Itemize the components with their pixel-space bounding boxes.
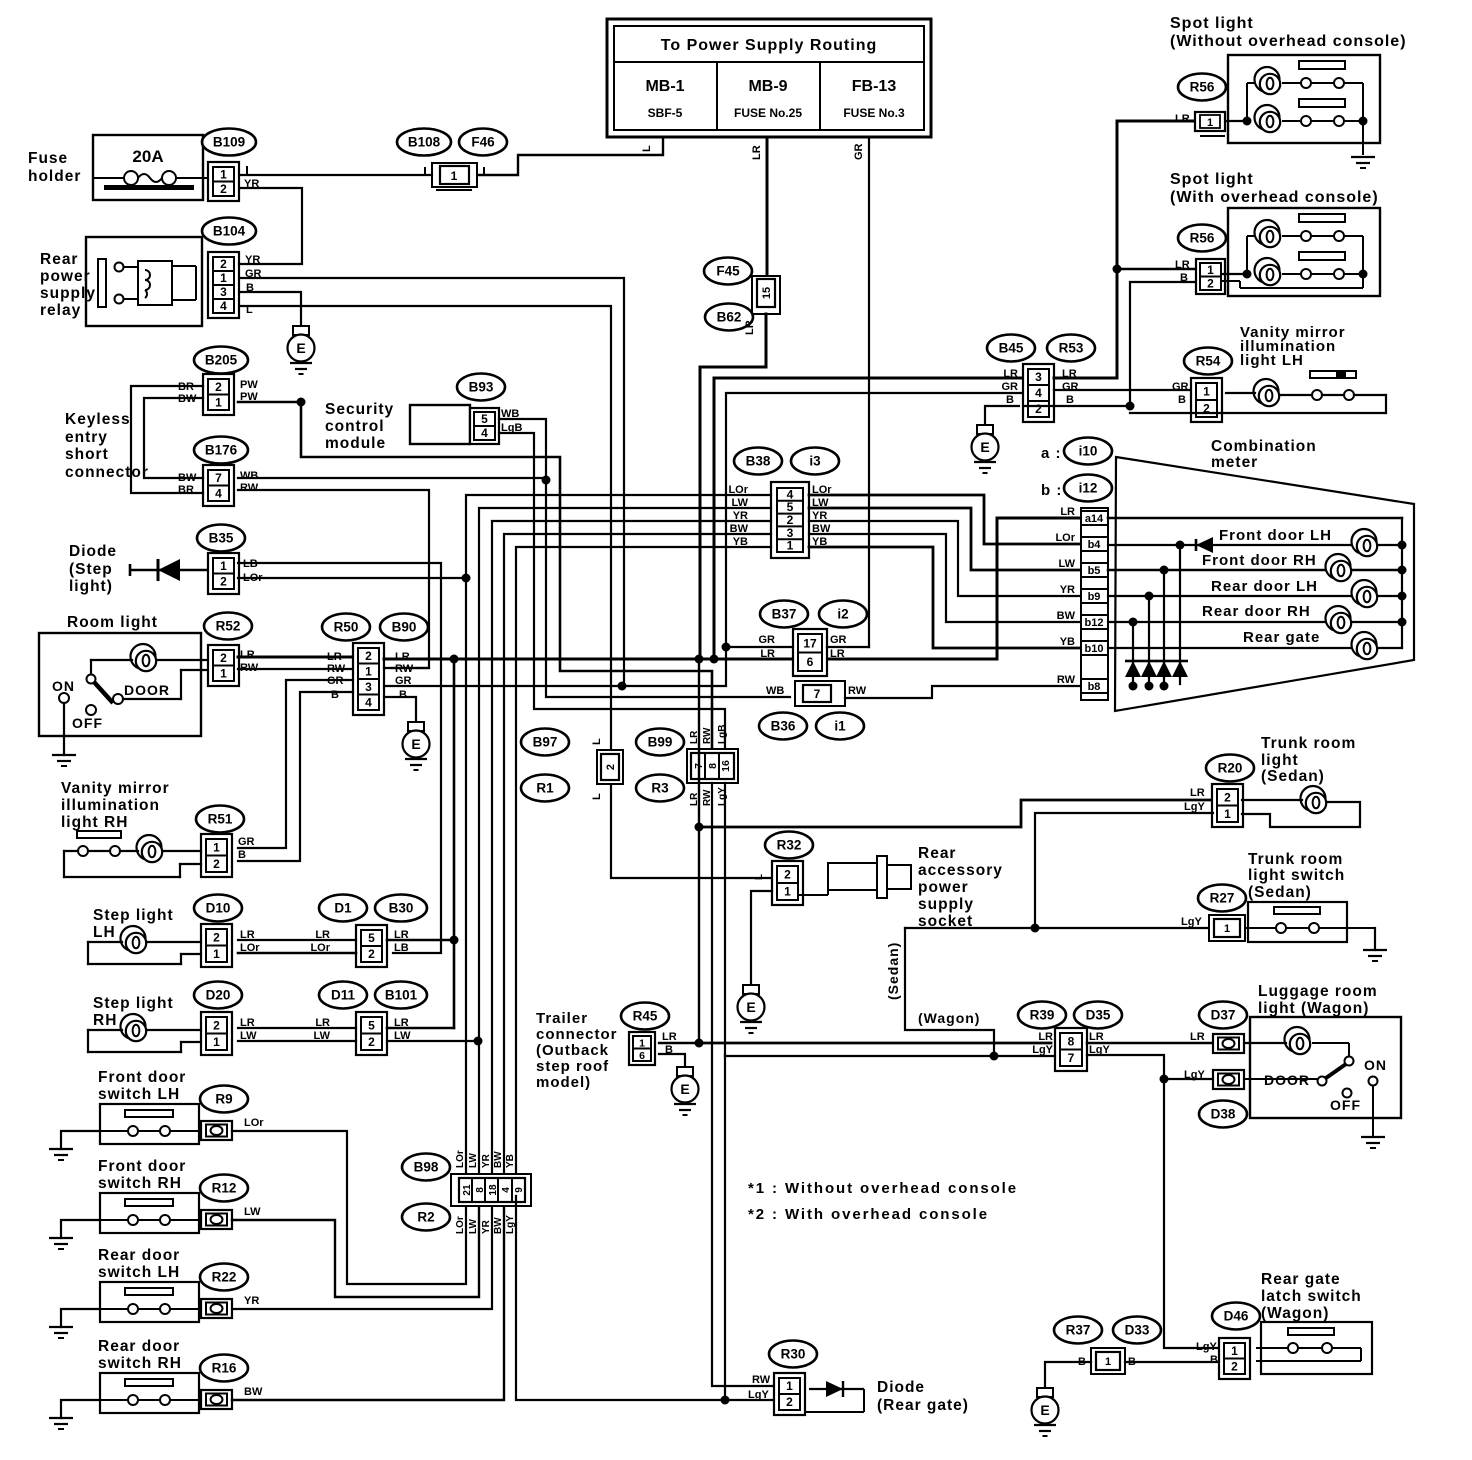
svg-text:LOr: LOr [455, 1216, 466, 1234]
svg-text:LR: LR [395, 651, 410, 663]
diode rear gate symbol [806, 1381, 864, 1412]
label Security line1 [325, 401, 394, 418]
svg-text:B93: B93 [469, 380, 494, 395]
connector B176 [203, 465, 234, 506]
label Spot light 2a [1170, 171, 1254, 188]
label L below B97 conn [591, 793, 603, 800]
svg-text:6: 6 [807, 655, 814, 669]
label Diode rear gate 2 [877, 1397, 969, 1414]
label Rear door LH [1211, 578, 1318, 595]
svg-text:BW: BW [493, 1151, 504, 1168]
label LgY at D38 [1184, 1069, 1205, 1081]
wire meter row FDRH right [1353, 569, 1402, 572]
Front door|switch RH internals [100, 1199, 201, 1225]
svg-text:i1: i1 [834, 719, 846, 734]
svg-text:D11: D11 [331, 988, 356, 1003]
svg-text:1: 1 [213, 1035, 220, 1049]
svg-text:B176: B176 [205, 443, 238, 458]
wire LOr to b4 [809, 495, 1081, 544]
junction meter right bus 545 [1398, 541, 1407, 550]
note 2 [748, 1206, 989, 1223]
label Step light RH 1 [93, 995, 174, 1012]
svg-text:Rear door RH: Rear door RH [1202, 603, 1311, 620]
meter connector column [1081, 508, 1108, 700]
label LR rotated top [751, 145, 763, 160]
ground spot light 1 [1351, 157, 1375, 168]
wire meter row a14 to bus [1108, 517, 1402, 520]
label YR above B98 [481, 1153, 492, 1168]
connector R51 [201, 834, 232, 877]
label L above B97 conn [591, 738, 603, 745]
Front door|switch LH box [100, 1104, 199, 1144]
label Rear accessory 4 [918, 896, 974, 913]
label LR right B30 [394, 929, 409, 941]
spot light 2 bulb lower [1255, 258, 1281, 285]
svg-text:b10: b10 [1085, 643, 1104, 655]
label Spot light 1b [1170, 33, 1407, 50]
svg-text:18: 18 [488, 1184, 499, 1196]
svg-text:LOr: LOr [244, 1117, 264, 1129]
spot light 2 internals [1222, 214, 1363, 288]
label LB right B30 [394, 942, 409, 954]
oval B205 [194, 347, 248, 374]
label YR at B104 pin2 [245, 254, 260, 266]
svg-text:Rear gate: Rear gate [1243, 629, 1320, 646]
svg-text:LgY: LgY [748, 1389, 769, 1401]
svg-text:B98: B98 [414, 1160, 439, 1175]
oval R32 [765, 832, 813, 859]
vanity RH contact 2 [110, 846, 120, 856]
label Keyless line4 [65, 464, 149, 481]
svg-text:LOr: LOr [455, 1150, 466, 1168]
svg-text:short: short [65, 446, 109, 463]
svg-text:R50: R50 [334, 620, 359, 635]
label B right D33 [1128, 1356, 1136, 1368]
svg-text:1: 1 [220, 167, 227, 181]
Rear door|switch RH internals [100, 1379, 201, 1405]
oval D10 [194, 895, 242, 922]
label b colon [1041, 482, 1062, 499]
svg-text:D10: D10 [206, 901, 231, 916]
wire YR to b9 [809, 521, 1081, 596]
power supply routing box [607, 19, 931, 137]
label LW left B38 [732, 497, 749, 509]
wire LOr R9 to B98 [232, 1131, 466, 1284]
svg-text:1: 1 [1224, 807, 1231, 821]
wire LR D35 to D37 [1087, 1042, 1213, 1045]
svg-text:(Wagon): (Wagon) [1261, 1305, 1329, 1322]
svg-text:b9: b9 [1088, 591, 1101, 603]
svg-text:B90: B90 [392, 620, 417, 635]
label Diode step line3 [69, 578, 113, 595]
label Vanity RH 1 [61, 780, 170, 797]
label Diode rear gate 1 [877, 1379, 925, 1396]
svg-text:MB-1: MB-1 [645, 78, 684, 95]
connector R12 [201, 1210, 232, 1229]
label Rear power supply relay line2 [40, 268, 91, 285]
junction meter right bus 596 [1398, 592, 1407, 601]
socket symbol [798, 856, 911, 898]
label (Wagon) [918, 1010, 980, 1026]
svg-text:RW: RW [1057, 674, 1076, 686]
connector spotlight1 [1195, 112, 1225, 136]
connector R37 D33 [1091, 1348, 1125, 1374]
luggage switch [1245, 1043, 1378, 1137]
svg-text:R56: R56 [1190, 80, 1215, 95]
oval B101 [375, 982, 427, 1009]
svg-text:B99: B99 [648, 735, 673, 750]
svg-text:B108: B108 [408, 135, 441, 150]
svg-text:LW: LW [244, 1206, 261, 1218]
svg-text:R54: R54 [1196, 354, 1221, 369]
svg-text:7: 7 [1068, 1051, 1075, 1065]
svg-text:RW: RW [327, 663, 346, 675]
wire LgY sedan drop [905, 928, 994, 1056]
label Trunk room 3 [1261, 768, 1325, 785]
wire meter row RDRH right [1353, 621, 1402, 623]
wire diode stub 2 [1163, 570, 1165, 684]
wire BW to b12 [809, 534, 1081, 622]
wire trunk switch ground [1374, 928, 1376, 950]
connector B38 i3 [771, 482, 809, 558]
meter bulb FDLH [1352, 529, 1378, 556]
svg-text:supply: supply [40, 285, 96, 302]
wire LB B35 to B30 [238, 563, 441, 953]
label Front door LH [1219, 527, 1332, 544]
oval B45 [987, 335, 1035, 362]
svg-text:LR: LR [1038, 1031, 1053, 1043]
svg-text:2: 2 [220, 651, 227, 665]
svg-text:Spot light: Spot light [1170, 171, 1254, 188]
label LgY at D46 [1196, 1341, 1217, 1353]
wire LR B45 to spotlights [1054, 121, 1195, 378]
connector R22 [201, 1299, 232, 1318]
label Trailer 2 [536, 1026, 618, 1043]
label LB at B35 [243, 558, 258, 570]
svg-text:*1 : Without overhead console: *1 : Without overhead console [748, 1180, 1018, 1197]
label GR at R51 [238, 836, 255, 848]
junction LgY trunk [1031, 924, 1040, 933]
svg-text:R32: R32 [777, 838, 802, 853]
wire trunk bulb right loop [1242, 802, 1360, 827]
svg-text:LR: LR [1003, 368, 1018, 380]
svg-text:ON: ON [52, 678, 75, 694]
svg-text:B35: B35 [209, 531, 234, 546]
wire luggage bulb feed [1245, 1042, 1286, 1044]
label BW above B98 [493, 1151, 504, 1168]
svg-text:RW: RW [752, 1374, 771, 1386]
label YB above B98 [505, 1154, 516, 1168]
oval R9 [200, 1086, 248, 1113]
label Vanity RH 3 [61, 814, 128, 831]
junction LR bus at 454 [450, 655, 459, 664]
svg-text:D33: D33 [1125, 1323, 1150, 1338]
svg-text:Keyless: Keyless [65, 411, 131, 428]
svg-text:GR: GR [1062, 381, 1079, 393]
wire LR R52 to B90 [238, 656, 353, 659]
label LW at D20 [240, 1030, 257, 1042]
wire BW bus [504, 534, 771, 1176]
svg-text:R22: R22 [212, 1270, 237, 1285]
label Keyless line2 [65, 429, 108, 446]
svg-text:YB: YB [1060, 636, 1075, 648]
svg-text:L: L [591, 738, 603, 745]
svg-text:Room light: Room light [67, 614, 158, 631]
vanity LH contact 1 [1312, 390, 1322, 400]
svg-text:socket: socket [918, 913, 973, 930]
label Rear power supply relay line4 [40, 302, 81, 319]
wire B B45 to ground [1024, 405, 1054, 407]
label YB right B38 [812, 536, 827, 548]
ground E at R32 [738, 985, 765, 1033]
junction meter diode bus 1133 [1129, 682, 1138, 691]
junction LgY R30 [721, 1396, 730, 1405]
connector B205 [203, 374, 234, 415]
wire WB B176 to junction [238, 477, 546, 479]
connector B98 R2 [451, 1174, 531, 1206]
svg-text:DOOR: DOOR [124, 682, 170, 698]
wire RW B176 to room light [238, 490, 429, 668]
svg-text:BW: BW [1057, 610, 1076, 622]
svg-text:21: 21 [462, 1184, 473, 1196]
svg-text:LR: LR [830, 648, 845, 660]
svg-text:5: 5 [368, 931, 375, 945]
tick at B109 pin1 [246, 167, 248, 175]
svg-text:2: 2 [220, 574, 227, 588]
svg-text:9: 9 [514, 1187, 525, 1193]
svg-text:1: 1 [787, 539, 794, 553]
junction GR at 622 [618, 682, 627, 691]
svg-text:1: 1 [639, 1037, 645, 1049]
oval R16 [200, 1355, 248, 1382]
wire YR bus [492, 521, 771, 1176]
label B right B90 [399, 689, 407, 701]
svg-text:7: 7 [814, 687, 821, 701]
vanity LH bulb [1254, 379, 1280, 406]
label Step light LH 1 [93, 907, 174, 924]
label Rear accessory 3 [918, 879, 969, 896]
label (Sedan) rotated [885, 942, 901, 1000]
label RW below B99 [702, 789, 713, 806]
label WB at B176 pin7 [240, 470, 258, 482]
label Rear accessory 1 [918, 845, 956, 862]
wire LW B101 to bus [387, 1040, 478, 1042]
wire YB B98 to R30 [516, 1196, 779, 1400]
svg-text:B: B [399, 689, 407, 701]
label LgY below B99 [717, 787, 728, 806]
Rear door|switch LH internals [100, 1288, 201, 1314]
label Rear gate latch 2 [1261, 1288, 1362, 1305]
label Trunk room 1 [1261, 735, 1356, 752]
wire GR B45 to R54 [1054, 389, 1192, 391]
svg-text:2: 2 [215, 380, 222, 394]
meter pin b8 [1081, 679, 1108, 693]
junction LgY wagon [990, 1052, 999, 1061]
svg-text:power: power [918, 879, 969, 896]
svg-text:switch LH: switch LH [98, 1086, 180, 1103]
junction LR step LH [450, 936, 459, 945]
meter pin b9 [1081, 589, 1108, 603]
svg-text:B: B [1180, 272, 1188, 284]
connector R20 [1212, 784, 1243, 827]
oval D20 [194, 982, 242, 1009]
wire B B104 pin3 to ground [240, 292, 301, 326]
oval R22 [200, 1264, 248, 1291]
wire Rear door|switch LH ground [61, 1309, 100, 1327]
spot light 1 box [1228, 55, 1380, 143]
junction LR R45 [695, 1039, 704, 1048]
svg-text:Rear door: Rear door [98, 1338, 180, 1355]
svg-text:LgY: LgY [1196, 1341, 1217, 1353]
svg-text:relay: relay [40, 302, 81, 319]
label LR right B101 [394, 1017, 409, 1029]
label Room light [67, 614, 158, 631]
svg-text:D46: D46 [1224, 1309, 1249, 1324]
wire LgY R20 to R27 [1035, 813, 1213, 928]
wire diode stub 3 [1148, 596, 1150, 684]
wire MB-1 feed [477, 137, 663, 175]
connector B97 R1 [597, 750, 623, 784]
connector R16 [201, 1390, 232, 1409]
label LOr at B35 [243, 572, 263, 584]
svg-text:(Outback: (Outback [536, 1042, 609, 1059]
label RW at R52 [240, 662, 259, 674]
svg-text:Spot light: Spot light [1170, 15, 1254, 32]
svg-text:switch RH: switch RH [98, 1355, 182, 1372]
oval R56 upper [1178, 74, 1226, 101]
label Rear accessory 5 [918, 913, 973, 930]
oval B35 [197, 525, 245, 552]
diode step light symbol [130, 559, 208, 581]
Rear door|switch LH box [100, 1282, 199, 1322]
svg-text:Trailer: Trailer [536, 1010, 588, 1027]
label LOr left B38 [728, 484, 748, 496]
svg-text:LH: LH [93, 924, 116, 941]
label LR at spotlight2 [1175, 259, 1190, 271]
meter pin b5 [1081, 563, 1108, 577]
svg-text:PW: PW [240, 379, 258, 391]
svg-text:R30: R30 [781, 1347, 806, 1362]
Front door|switch LH internals [100, 1110, 201, 1136]
svg-text:2: 2 [213, 1018, 220, 1032]
wire YR B109 to B104 [240, 188, 302, 264]
label BR at B176 [178, 484, 194, 496]
wire LOr B35 to bus [238, 577, 466, 579]
label LR left D11 [315, 1017, 330, 1029]
svg-text:Trunk room: Trunk room [1248, 851, 1343, 868]
svg-text:R1: R1 [536, 781, 554, 796]
label Rear door RH [1202, 603, 1311, 620]
svg-text:module: module [325, 435, 386, 452]
meter diode 2 [1141, 661, 1157, 677]
svg-text:F45: F45 [716, 264, 740, 279]
svg-text:control: control [325, 418, 385, 435]
svg-text:1: 1 [365, 664, 372, 678]
wire diode stub 4 [1132, 622, 1134, 684]
vanity LH contact 2 [1344, 390, 1354, 400]
svg-text:8: 8 [1068, 1034, 1075, 1048]
junction RDRH stub [1129, 618, 1138, 627]
spot light 2 box [1228, 208, 1380, 296]
wire Front door|switch RH ground [61, 1220, 100, 1238]
junction LR trunk [695, 823, 704, 832]
svg-text:(Sedan): (Sedan) [885, 942, 901, 1000]
svg-text:B30: B30 [389, 901, 414, 916]
svg-text:switch RH: switch RH [98, 1175, 182, 1192]
wire GR B37 pin17 right [827, 646, 869, 648]
svg-text:20A: 20A [132, 147, 163, 166]
wire B D33 to D46 [1125, 1361, 1224, 1363]
Front door|switch RH box [100, 1193, 199, 1233]
label LR rotated below F45 [744, 320, 756, 335]
svg-text:B38: B38 [746, 454, 771, 469]
label Front door|switch RH 2 [98, 1175, 182, 1192]
svg-text:B: B [1178, 394, 1186, 406]
wire B R37 to ground [1045, 1362, 1091, 1388]
svg-text:4: 4 [365, 695, 372, 709]
diode front door LH row [1196, 537, 1213, 553]
label BW at B176 [178, 472, 197, 484]
label Front door RH [1202, 552, 1317, 569]
label BW at R16 [244, 1386, 263, 1398]
wire LgY D35 to D38 [1087, 1055, 1213, 1079]
svg-text:R3: R3 [651, 781, 669, 796]
label Diode step line1 [69, 543, 117, 560]
step light RH wires [88, 1030, 201, 1052]
svg-text:Step light: Step light [93, 907, 174, 924]
oval R2 [402, 1204, 450, 1231]
svg-text:4: 4 [1035, 386, 1042, 400]
oval R27 [1198, 885, 1246, 912]
svg-text:LR: LR [744, 320, 756, 335]
svg-text:E: E [980, 439, 989, 455]
oval i10 [1064, 438, 1112, 465]
svg-text:YR: YR [481, 1219, 492, 1234]
svg-text:R53: R53 [1059, 341, 1084, 356]
svg-text:(Sedan): (Sedan) [1248, 884, 1312, 901]
connector D38 [1213, 1070, 1244, 1089]
connector R39 D35 [1055, 1028, 1087, 1071]
label LR right B90 [395, 651, 410, 663]
label LOr at D10 [240, 942, 260, 954]
svg-text:SBF-5: SBF-5 [648, 106, 683, 120]
label GR right B37 [830, 634, 847, 646]
label LOr at meter b4 [1055, 532, 1075, 544]
junction WB [542, 476, 551, 485]
svg-text:LR: LR [1190, 787, 1205, 799]
combination meter trapezoid [1115, 457, 1414, 711]
wire Front door|switch LH ground [61, 1131, 100, 1149]
svg-text:i12: i12 [1079, 481, 1098, 496]
svg-text:5: 5 [368, 1018, 375, 1032]
svg-text:RW: RW [240, 482, 259, 494]
svg-text:i10: i10 [1079, 444, 1098, 459]
svg-text:YB: YB [505, 1154, 516, 1168]
svg-text:(Sedan): (Sedan) [1261, 768, 1325, 785]
svg-text:(Step: (Step [69, 561, 113, 578]
oval F45 [704, 258, 752, 285]
spot light 1 bulb lower [1255, 105, 1281, 132]
svg-text:light): light) [69, 578, 113, 595]
svg-text:Rear door LH: Rear door LH [1211, 578, 1318, 595]
svg-text:4: 4 [481, 426, 488, 440]
svg-text:R39: R39 [1030, 1008, 1055, 1023]
svg-text:4: 4 [501, 1187, 512, 1193]
svg-text:b12: b12 [1085, 617, 1104, 629]
wire L below B97 connector [611, 783, 772, 878]
oval B104 [202, 218, 256, 245]
wire meter row RG [1108, 647, 1353, 649]
